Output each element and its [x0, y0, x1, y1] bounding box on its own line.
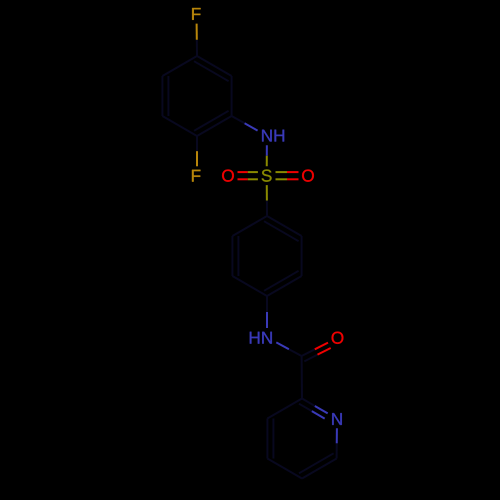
- amide C=O double bond: [302, 343, 331, 362]
- label NH (sulfonamide nitrogen): [262, 130, 284, 142]
- S=O double bond (right): [276, 172, 299, 179]
- ring1 C3=C4 aromatic double bond: [162, 76, 168, 116]
- ring1 C2-C3 bond: [162, 116, 197, 136]
- label S (sulfur): [262, 170, 272, 182]
- pyridine C2=N1 double bond: [299, 399, 328, 419]
- ring2 aromatic double bond (left): [232, 236, 238, 276]
- ring1 C5-C6 bond: [231, 76, 233, 116]
- label HN (amide nitrogen): [250, 332, 272, 344]
- pyridine C4-C5 bond: [267, 459, 302, 479]
- pyridine C3=C4 aromatic double bond: [267, 419, 273, 459]
- bond ring1 C - sulfonamide N: [232, 116, 258, 131]
- ring2 aromatic double bond (top right): [264, 216, 302, 241]
- bond S - ring2 C: [266, 185, 268, 216]
- S=O double bond (left): [238, 172, 258, 179]
- bond N-S: [266, 145, 268, 166]
- ring1 C4=C5 aromatic double bond: [194, 56, 232, 81]
- ring1 C1=C2 aromatic double bond: [194, 111, 232, 136]
- pyridine C5=C6 aromatic double bond: [299, 453, 337, 478]
- bond C-F (bottom fluorine): [196, 136, 198, 166]
- label F (bottom fluorine): [192, 170, 200, 182]
- bond ring2 C - amide N: [266, 296, 268, 328]
- pyridine N1-C6 bond: [336, 428, 338, 458]
- label N (pyridine nitrogen): [332, 413, 342, 425]
- ring1 C6-C1 bond: [162, 56, 197, 76]
- ring2 bond (bottom left): [232, 276, 267, 296]
- pyridine C2-C3 bond: [267, 399, 302, 419]
- label O (carbonyl oxygen): [332, 332, 344, 344]
- ring2 bond (right): [301, 236, 303, 276]
- label F (top fluorine): [192, 8, 200, 20]
- label O (left sulfonyl oxygen): [222, 170, 234, 182]
- bond C-F (top fluorine): [196, 24, 198, 56]
- ring2 aromatic double bond (bottom right): [264, 271, 302, 296]
- ring2 bond (top left): [232, 216, 267, 236]
- bond amide N - carbonyl C: [276, 342, 301, 356]
- label O (right sulfonyl oxygen): [302, 170, 314, 182]
- bond carbonyl C - pyridine C2: [301, 356, 303, 399]
